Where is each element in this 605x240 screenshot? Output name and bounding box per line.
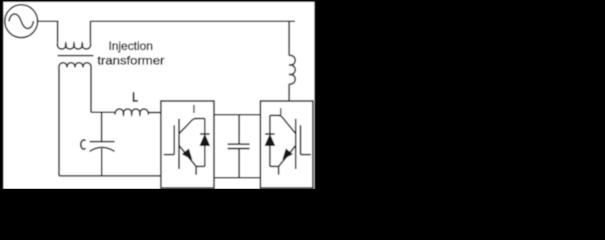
label I (box 1) xyxy=(193,105,194,113)
collector horizontal (box2) xyxy=(270,114,280,116)
capacitor C curved plate xyxy=(90,147,115,151)
bottom horizontal (box2) xyxy=(270,165,279,167)
inductor L xyxy=(115,109,148,115)
dc link bottom wire xyxy=(214,177,260,179)
wire secondary right down xyxy=(90,67,92,112)
gate lead (box2) xyxy=(301,154,311,156)
wire top rail down to inductor xyxy=(288,21,290,55)
gate bar xyxy=(173,125,175,154)
svg-text:Injection: Injection xyxy=(108,39,153,53)
diode triangle xyxy=(200,135,209,146)
collector diagonal (box2) xyxy=(278,115,295,133)
emitter stub xyxy=(195,166,197,174)
capacitor C bottom lead xyxy=(101,149,103,176)
dc link capacitor lead bottom xyxy=(238,149,240,178)
wire source to transformer primary xyxy=(38,21,58,43)
capacitor C top plate xyxy=(90,141,115,143)
svg-text:transformer: transformer xyxy=(97,54,164,68)
emitter stub (box2) xyxy=(278,166,280,174)
emitter arrow (box2) xyxy=(283,149,292,159)
wire primary to top rail xyxy=(89,21,91,43)
emitter diagonal xyxy=(179,146,196,167)
gate lead xyxy=(164,154,174,156)
gate bar (box2) xyxy=(300,125,302,154)
diode vertical (box2) xyxy=(269,115,271,166)
diode triangle (box2) xyxy=(265,135,274,146)
transformer core xyxy=(58,55,94,57)
label I (box 2) xyxy=(280,108,281,115)
body bar xyxy=(178,119,180,169)
series inductor (right vertical) xyxy=(289,55,295,84)
wire junction down to capacitor C xyxy=(101,112,103,141)
label L xyxy=(134,92,138,101)
white figure panel xyxy=(3,2,314,189)
dc link top wire xyxy=(214,114,260,116)
emitter diagonal (box2) xyxy=(279,146,296,167)
injection transformer secondary winding xyxy=(59,63,91,68)
top wire xyxy=(90,20,295,22)
wire L to converter box 1 xyxy=(148,112,161,114)
diode cathode bar xyxy=(200,133,210,135)
injection transformer primary winding xyxy=(57,43,90,49)
collector horizontal xyxy=(195,118,205,120)
bottom horizontal xyxy=(196,165,205,167)
bottom wire xyxy=(59,175,161,177)
emitter arrow xyxy=(183,149,192,159)
label C xyxy=(81,140,86,149)
AC source xyxy=(5,5,38,38)
diode vertical xyxy=(204,119,206,167)
AC source sine wave xyxy=(9,14,34,29)
wire secondary left down xyxy=(58,67,60,175)
body bar (box2) xyxy=(295,119,297,169)
collector diagonal xyxy=(179,119,196,134)
wire secondary to L xyxy=(91,111,116,113)
wire inductor to converter box 2 xyxy=(288,84,290,102)
black background xyxy=(0,0,605,189)
diode cathode bar (box2) xyxy=(265,133,275,135)
dc link capacitor lead top xyxy=(238,115,240,144)
converter box 2 (mirrored IGBT module) xyxy=(260,101,313,188)
converter box 1 (IGBT module) xyxy=(161,101,214,188)
dc link capacitor plates xyxy=(228,144,250,148)
